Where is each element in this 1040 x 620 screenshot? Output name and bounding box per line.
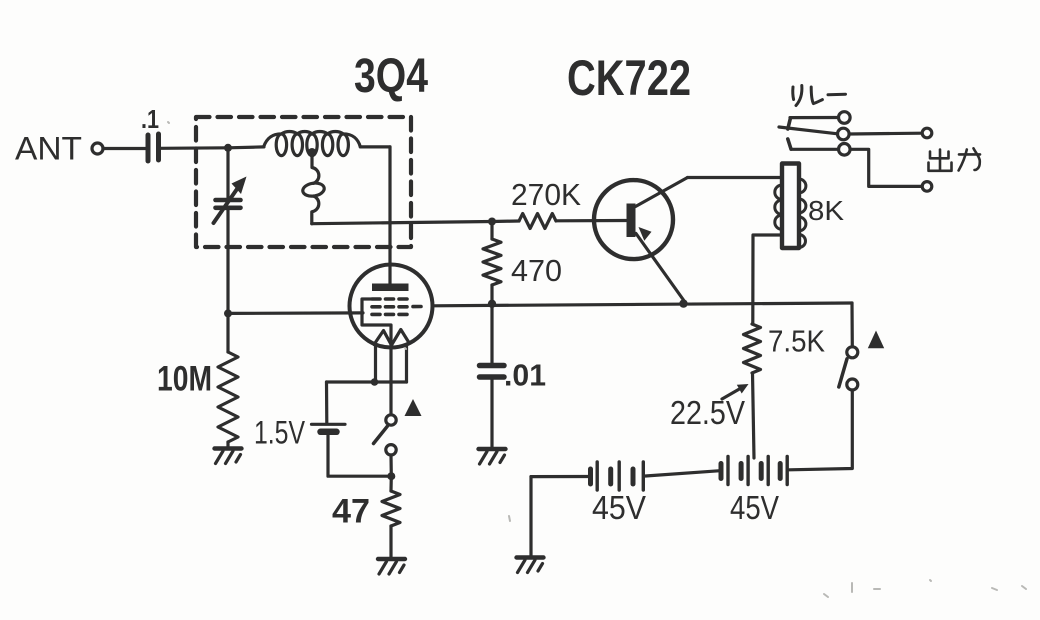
relay armature common contact [838,128,850,140]
scan noise specks [168,122,1026,597]
svg-text:470: 470 [511,253,562,288]
wire C3 to ground [490,380,493,447]
wire collector to relay coil [688,176,783,179]
ground G1 [215,449,242,464]
node C junction [224,309,232,317]
label 出力 [929,148,981,171]
battery B2 45V plates [591,462,644,490]
relay coil 8K left bumps [775,185,782,229]
node B junction [488,218,496,226]
inductor L1 loop 3 [307,134,317,156]
ground G2 [378,559,405,574]
capacitor C1 [146,135,151,161]
switch S1 arm [374,426,388,443]
wire filament bus to battery B1 [325,382,328,423]
wire NC contact lead [790,116,839,119]
node F emitter junction [679,299,687,307]
tube V1 grid dashes row2 [372,305,421,309]
wire R5 to battery tap [753,373,755,458]
coil tap crossing loop [302,182,325,198]
wire S2 to battery B3 [790,390,853,470]
svg-text:.1: .1 [141,104,159,134]
inductor L1 loop 1 [276,134,286,156]
svg-text:10M: 10M [157,360,212,399]
svg-text:45V: 45V [592,489,646,526]
resistor R3 270K [519,214,556,229]
relay armature arm [779,127,838,134]
wire coil L1 right end [360,145,390,148]
inductor L1 loop 4 [322,134,332,156]
relay NO contact tick [788,139,791,149]
arrow 22.5V pointer [722,388,742,400]
switch S2 top contact [847,347,858,358]
wire NO to output T2 [850,149,922,186]
wire NO contact lead [791,148,839,151]
svg-text:45V: 45V [730,489,779,526]
svg-text:22.5V: 22.5V [670,394,745,431]
wire B2 left to ground drop [531,475,588,478]
capacitor C3 .01 plate bottom [480,374,505,380]
wire R4 to ground [389,526,392,557]
wire tap to node B [312,222,492,224]
node coil tap junction [308,148,317,157]
ground G3 [479,449,506,464]
relay contact bottom NO [839,144,851,156]
tube V1 grid bracket [362,299,391,348]
wire node A to coil L1 [228,145,264,149]
wire node B to R3 [492,219,519,223]
inductor L1 loop 2 [292,134,302,156]
resistor R4 47 [382,491,400,526]
wire filament bus [327,380,407,383]
svg-text:ANT: ANT [15,131,82,167]
dashed tuning-unit box [196,117,411,247]
transistor Q1 base bar [627,204,636,238]
resistor R2 470 [483,239,501,285]
wire R2 to node E [490,285,493,304]
wire R3 to Q1 base [556,219,626,223]
tube V1 grid dashes row1 [372,297,407,301]
tube V1 grid dashes row3 [372,313,407,317]
wire R1 to ground [226,442,229,448]
battery B3 45V plates [721,457,787,485]
wire ground drop [529,477,532,556]
resistor R5 7.5K [744,324,761,373]
node filament junction [371,378,379,386]
triangle marker near S1 [405,399,422,416]
wire C1 to node A [161,146,228,150]
switch S1 bottom lead [389,455,392,476]
switch S1 bottom contact [386,445,396,455]
variable capacitor C2 top wire [226,148,229,199]
wire node C to tube grid [228,311,363,315]
svg-text:270K: 270K [511,177,581,212]
switch S2 arm [839,359,847,387]
tube V1 filament leg right [405,345,408,382]
wire L1 to tube plate [388,147,391,264]
battery B1 1.5V plate short [321,429,337,436]
node D junction [387,472,395,480]
battery B1 1.5V plate long [312,423,346,426]
tube V1 filament tents [374,330,410,345]
tube V1 plate lead [388,264,391,284]
svg-text:CK722: CK722 [567,50,691,106]
svg-text:.01: .01 [504,358,546,393]
output terminal T2 [922,182,932,192]
svg-text:7.5K: 7.5K [768,324,825,359]
transistor Q1 emitter arrow [639,227,652,241]
output terminal T1 [922,128,932,138]
wire node C to R1 [226,313,229,352]
tube V1 plate [372,284,409,292]
transistor Q1 emitter [636,234,684,304]
node E junction [488,300,496,308]
tube V1 3Q4 envelope [350,265,433,348]
transistor Q1 CK722 envelope [594,180,673,259]
antenna terminal [92,143,103,154]
inductor L1 top humps [264,131,361,146]
capacitor C3 .01 plate top [480,363,505,369]
svg-text:1.5V: 1.5V [254,415,306,451]
wire coil tap lower arc [312,196,319,224]
svg-text:8K: 8K [808,195,844,226]
relay contact top NC [839,112,851,124]
resistor R1 10M [218,352,238,442]
wire ANT terminal to C1 [103,147,146,150]
wire battery B1 to bottom bus [328,435,391,476]
wire relay coil bottom to R5 [753,235,782,324]
relay coil 8K right bumps [799,179,806,248]
wire node D to R4 [389,476,392,491]
ground G4 [517,558,544,573]
wire coil tap upper arc [312,154,319,183]
switch S1 top contact [386,415,396,425]
variable capacitor C2 plates [216,198,241,203]
switch S2 bottom contact [847,379,858,390]
variable capacitor C2 arrow [214,189,238,223]
label relay リレー [793,86,846,106]
wire node B to R2 [490,222,493,240]
wire grid-line through tube bottom to switch S1 [389,348,392,415]
wire tube grid to main bus right [433,303,853,306]
wire common to output T1 [849,132,922,136]
wire node E to C3 [490,304,493,364]
relay coil 8K body [782,164,799,249]
wire main bus to switch S2 [850,303,853,347]
relay NC contact tick [788,118,791,129]
transistor Q1 collector [636,178,688,207]
svg-text:47: 47 [332,493,370,531]
wire between batteries [646,471,719,476]
inductor L1 loop 5 [338,134,348,156]
wire C2 to node C [226,209,229,314]
triangle marker near S2 [868,331,884,349]
tube V1 filament leg left [374,347,377,383]
node A junction [224,144,232,152]
svg-text:3Q4: 3Q4 [354,50,428,103]
